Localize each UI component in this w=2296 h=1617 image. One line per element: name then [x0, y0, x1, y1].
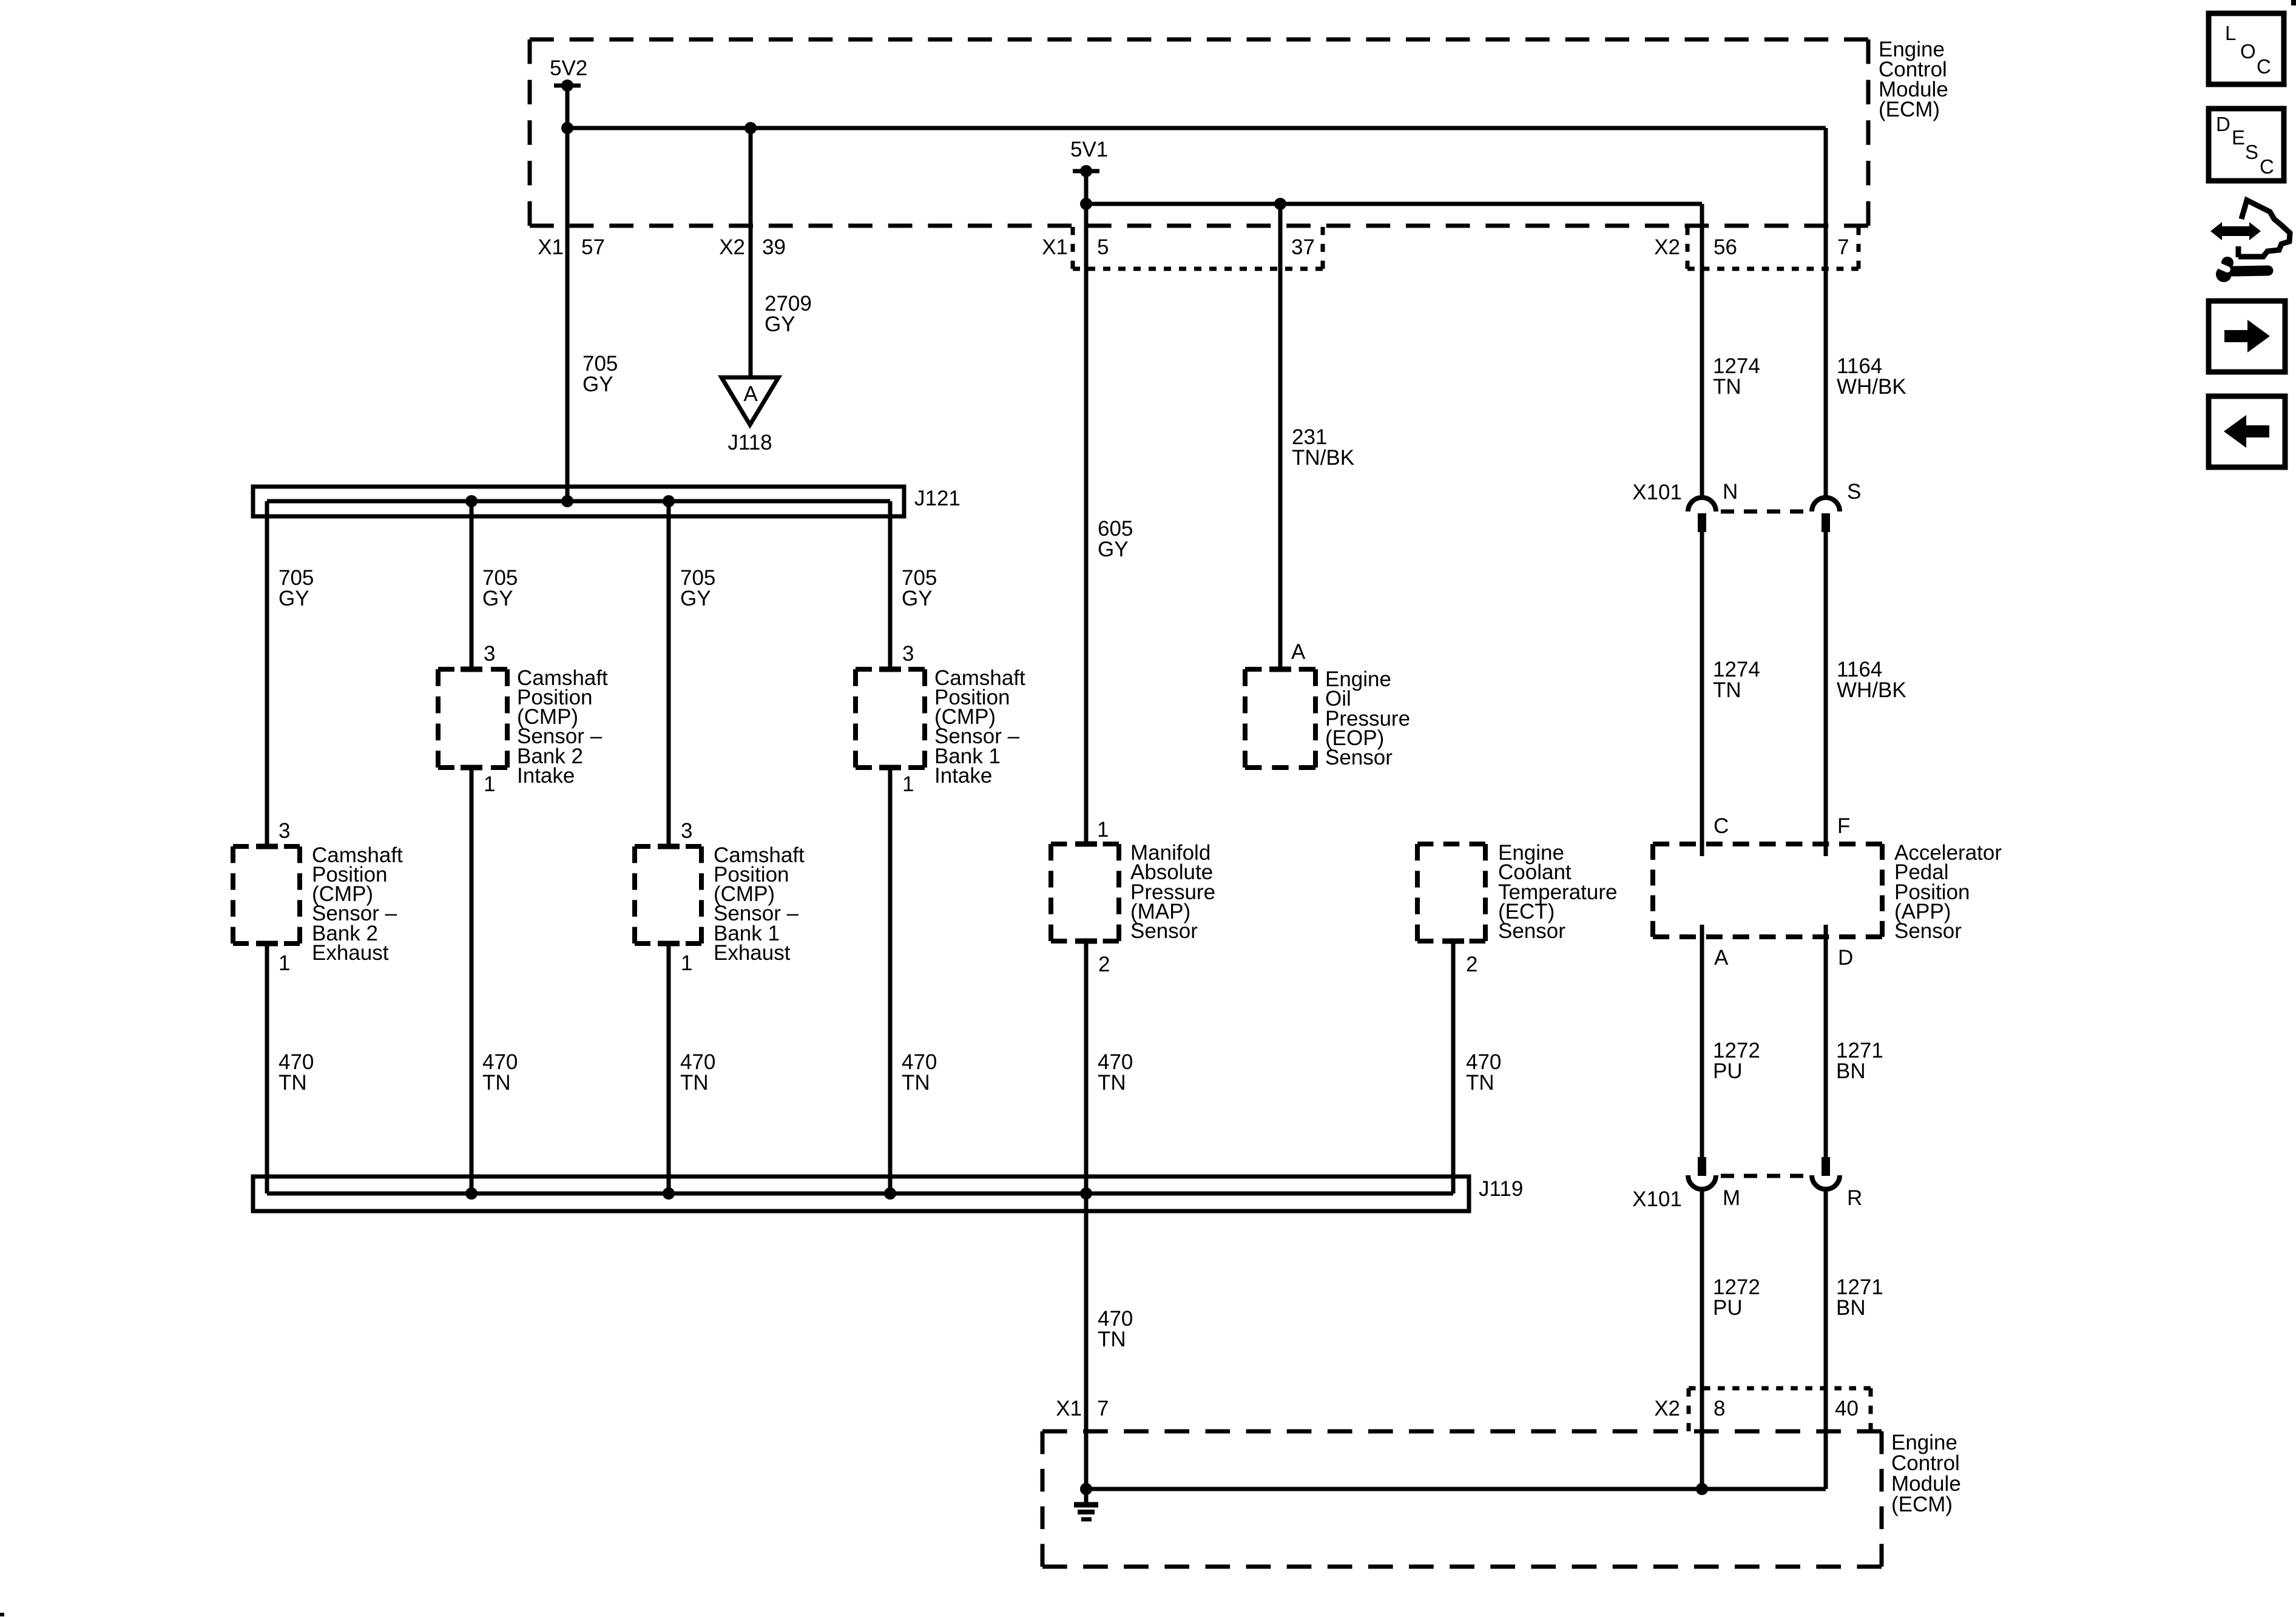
junction node on 5V1 rail at x=1790	[1080, 198, 1092, 210]
wire 1272 PU: X101 M down to ECM pin 8	[1700, 1189, 1704, 1489]
icon: back arrow box	[2209, 396, 2285, 467]
connector X2 dotted box (pins 56,7)	[1687, 267, 1859, 271]
svg-text:X1: X1	[1056, 1397, 1082, 1420]
sensor B2E: Camshaft Position CMP Sensor Bank 2 Exhaust dashed box	[233, 844, 300, 849]
svg-text:J119: J119	[1479, 1177, 1523, 1201]
svg-text:C: C	[1714, 814, 1729, 838]
wire 470 TN: ECT pin 2 to J119	[1451, 941, 1456, 1193]
svg-text:GY: GY	[279, 587, 309, 610]
junction dot J121 @935	[561, 495, 573, 507]
wire: 5V2 horizontal rail to pin 7	[567, 126, 1826, 130]
connector X101 pin R male bar	[1822, 1157, 1830, 1176]
wire: 5V2 stub down	[566, 86, 570, 128]
svg-text:GY: GY	[680, 587, 711, 610]
pin A terminal bar EOP	[1269, 667, 1291, 672]
svg-text:A: A	[743, 382, 758, 406]
wire 231 TN/BK: pin 37 down to EOP sensor	[1278, 204, 1283, 669]
svg-text:BN: BN	[1836, 1296, 1866, 1320]
sensor B1I: Camshaft Position CMP Sensor Bank 1 Intake dashed box	[856, 667, 925, 672]
svg-text:O: O	[2240, 40, 2256, 62]
junction node on 5V2 rail at x=935	[561, 122, 573, 134]
junction dot J119 @1790	[1080, 1187, 1092, 1200]
svg-text:3: 3	[902, 642, 914, 666]
svg-text:2: 2	[1098, 953, 1110, 976]
connector X101 pin M female arc	[1688, 1175, 1716, 1189]
connector X2 dotted box (pins 8,40) bottom	[1689, 1386, 1871, 1391]
svg-text:S: S	[2245, 141, 2258, 163]
svg-text:TN: TN	[1713, 375, 1741, 399]
wire: ground rail inside bottom ECM	[1086, 1487, 1826, 1491]
wire 470 TN: B2I pin 1 to J119	[470, 768, 474, 1193]
5V1 terminal bar	[1073, 169, 1099, 174]
svg-text:Sensor: Sensor	[1894, 919, 1962, 943]
sensor B1E: Camshaft Position CMP Sensor Bank 1 Exhaust dashed box	[635, 844, 701, 849]
junction dot ground rail @2805 (pin 8 wire)	[1696, 1483, 1708, 1495]
wire 470 TN: MAP pin 2 through J119 down to ECM pin X1-7	[1084, 941, 1089, 1489]
svg-text:X2: X2	[719, 235, 745, 259]
svg-text:57: 57	[581, 235, 605, 259]
svg-text:L: L	[2225, 22, 2236, 44]
svg-text:GY: GY	[765, 312, 795, 336]
svg-text:Sensor: Sensor	[1498, 919, 1565, 943]
svg-text:2: 2	[1466, 953, 1477, 976]
svg-text:39: 39	[762, 235, 786, 259]
svg-text:Intake: Intake	[517, 764, 575, 788]
pin 2 terminal bar ECT	[1442, 939, 1464, 944]
splice pack J121 outer box	[253, 487, 904, 516]
svg-text:X2: X2	[1654, 1397, 1680, 1420]
connector X101 pin R female arc	[1812, 1175, 1840, 1189]
svg-text:5: 5	[1097, 235, 1109, 259]
svg-text:8: 8	[1714, 1397, 1725, 1420]
svg-text:TN: TN	[1713, 678, 1741, 702]
ground symbol inside bottom ECM	[1084, 1489, 1089, 1504]
splice pack J119 outer box	[253, 1176, 1469, 1211]
sensor B2I: Camshaft Position CMP Sensor Bank 2 Intake dashed box	[438, 667, 507, 672]
svg-text:TN: TN	[1466, 1071, 1494, 1095]
sensor EOP: Engine Oil Pressure dashed box	[1245, 667, 1315, 672]
svg-text:Intake: Intake	[934, 764, 992, 788]
connector X101 pin S male bar	[1822, 513, 1830, 532]
connector X101 pin M male bar	[1698, 1157, 1706, 1176]
pin 2 terminal bar MAP	[1075, 939, 1097, 944]
svg-text:J121: J121	[914, 487, 961, 510]
junction node on 5V1 rail at x=2110 (wire 231)	[1274, 198, 1286, 210]
icon: forward arrow box	[2209, 301, 2285, 372]
junction dot J121 @777	[465, 495, 478, 507]
page corner tick marks	[2291, 0, 2296, 5]
junction dot at 5V2 terminal	[561, 79, 573, 92]
svg-text:1: 1	[279, 951, 290, 975]
svg-text:X1: X1	[538, 235, 564, 259]
svg-text:3: 3	[279, 819, 290, 843]
junction dot J119 @1467	[884, 1187, 896, 1200]
wire 470 TN: B1I pin 1 to J119	[888, 768, 893, 1193]
svg-text:TN: TN	[680, 1071, 709, 1095]
wire 1274 TN: pin X2-56 down to X101 pin N	[1700, 204, 1704, 498]
svg-text:WH/BK: WH/BK	[1837, 678, 1906, 702]
svg-text:BN: BN	[1836, 1059, 1866, 1083]
wire 705 GY: J121 to CMP Bank1 Exhaust pin 3	[667, 501, 671, 846]
svg-text:1: 1	[902, 772, 914, 796]
svg-text:GY: GY	[482, 587, 513, 610]
wire 1274 TN: X101 N down to APP pin C	[1700, 532, 1704, 856]
junction dot J119 @1102	[663, 1187, 675, 1200]
wire 705 GY: pin X1-57 down to splice J121	[566, 128, 570, 501]
connector X101 lower dashed link	[1721, 1174, 1809, 1178]
svg-text:WH/BK: WH/BK	[1837, 375, 1906, 399]
svg-text:C: C	[2257, 55, 2271, 78]
connector X101 upper dashed link	[1721, 510, 1809, 514]
wire 470 TN: B1E pin 1 to J119	[667, 944, 671, 1193]
svg-text:F: F	[1837, 814, 1850, 838]
svg-text:7: 7	[1097, 1397, 1109, 1420]
svg-text:TN: TN	[1098, 1328, 1126, 1351]
5V2 terminal bar	[554, 84, 581, 88]
module U1: Engine Control Module (ECM) top, dashed box	[530, 38, 1868, 42]
junction dot at 5V1 terminal	[1080, 165, 1092, 177]
connector X101 pin N female arc	[1688, 498, 1716, 511]
svg-text:TN: TN	[1098, 1071, 1126, 1095]
pin 1 terminal bar B2E	[256, 941, 278, 947]
icon: hand with double arrow and wrench	[2238, 200, 2290, 257]
svg-text:X101: X101	[1632, 1187, 1682, 1211]
connector X101 pin N male bar	[1698, 513, 1706, 532]
svg-text:TN: TN	[279, 1071, 307, 1095]
junction dot ground rail @1790	[1080, 1483, 1092, 1495]
svg-text:J118: J118	[728, 431, 772, 454]
wire 705 GY: J121 to CMP Bank2 Intake pin 3	[470, 501, 474, 669]
svg-text:R: R	[1847, 1186, 1862, 1210]
module U1: Engine Control Module (ECM) bottom, dashed box	[1042, 1430, 1882, 1434]
ground J118 triangle symbol	[721, 377, 778, 425]
svg-text:TN: TN	[902, 1071, 930, 1095]
svg-text:S: S	[1847, 480, 1861, 504]
svg-text:3: 3	[681, 819, 692, 843]
svg-text:5V2: 5V2	[550, 56, 587, 80]
svg-text:D: D	[1838, 946, 1853, 970]
svg-text:A: A	[1714, 946, 1729, 970]
svg-text:Sensor: Sensor	[1325, 746, 1393, 769]
svg-text:M: M	[1723, 1186, 1740, 1210]
wire 1164 WH/BK: X101 S down to APP pin F	[1824, 532, 1828, 856]
wire 705 GY: J121 to CMP Bank1 Intake pin 3	[888, 501, 893, 669]
svg-text:GY: GY	[1098, 538, 1129, 561]
junction node on 5V2 rail at x=1237 (wire 2709)	[745, 122, 757, 134]
svg-text:1: 1	[681, 951, 692, 975]
connector X101 pin S female arc	[1812, 498, 1840, 511]
svg-text:40: 40	[1835, 1397, 1859, 1420]
sensor MAP: Manifold Absolute Pressure dashed box	[1051, 842, 1119, 846]
svg-text:56: 56	[1714, 235, 1737, 259]
pin 1 terminal bar B2I	[461, 765, 482, 771]
svg-text:3: 3	[484, 642, 495, 666]
wire 705 GY: J121 to CMP Bank2 Exhaust pin 3	[265, 501, 269, 846]
wire 1164 WH/BK: pin 7 down to X101 pin S	[1824, 128, 1828, 498]
splice pack J121 bus bar	[267, 499, 890, 504]
pin 1 terminal bar B1E	[658, 941, 680, 947]
pin 1 terminal bar B1I	[879, 765, 901, 771]
junction dot J119 @777	[465, 1187, 478, 1200]
wire 1272 PU: APP pin A down to X101 pin M	[1700, 925, 1704, 1157]
splice pack J119 bus bar	[267, 1192, 1453, 1196]
sensor ECT: Engine Coolant Temperature dashed box	[1417, 842, 1485, 846]
svg-text:Exhaust: Exhaust	[312, 941, 389, 965]
pin 3 terminal bar B1I	[879, 667, 901, 672]
icon: LOC box	[2209, 13, 2284, 84]
svg-text:TN: TN	[482, 1071, 511, 1095]
svg-text:(ECM): (ECM)	[1879, 98, 1940, 121]
wire 470 TN: B2E pin 1 to J119	[265, 944, 269, 1193]
pin 3 terminal bar B2E	[256, 844, 278, 849]
icon: DESC box	[2209, 109, 2284, 181]
svg-text:7: 7	[1837, 235, 1849, 259]
connector X1 dotted box (pins 5,37)	[1073, 267, 1323, 271]
svg-text:37: 37	[1291, 235, 1315, 259]
svg-text:A: A	[1291, 640, 1306, 664]
svg-text:C: C	[2260, 155, 2274, 178]
svg-text:E: E	[2232, 126, 2245, 149]
svg-text:1: 1	[1097, 818, 1109, 842]
svg-text:Exhaust: Exhaust	[714, 941, 791, 965]
svg-text:(ECM): (ECM)	[1891, 1493, 1953, 1516]
svg-text:X1: X1	[1042, 235, 1068, 259]
wire: 5V1 down through pin 5 to MAP sensor (605 GY)	[1084, 171, 1089, 844]
svg-text:Sensor: Sensor	[1130, 919, 1198, 943]
svg-text:TN/BK: TN/BK	[1292, 446, 1354, 470]
svg-text:5V1: 5V1	[1070, 138, 1108, 161]
svg-text:N: N	[1723, 480, 1738, 504]
svg-text:1: 1	[484, 772, 495, 796]
pin 3 terminal bar B1E	[658, 844, 680, 849]
svg-text:GY: GY	[582, 373, 613, 396]
pin 1 terminal bar MAP	[1075, 842, 1097, 847]
svg-text:PU: PU	[1713, 1059, 1743, 1083]
wire: 5V1 horizontal rail to pin 56	[1086, 202, 1702, 206]
svg-text:X101: X101	[1632, 481, 1682, 504]
wire 2709 GY: pin X2-39 down to ground J118	[749, 128, 753, 379]
svg-text:PU: PU	[1713, 1296, 1743, 1320]
junction dot J121 @1102	[663, 495, 675, 507]
sensor APP: Accelerator Pedal Position dashed box	[1653, 842, 1882, 846]
wire 1271 BN: X101 R down to ECM pin 40	[1824, 1189, 1828, 1489]
svg-text:GY: GY	[902, 587, 933, 610]
pin 3 terminal bar B2I	[461, 667, 482, 672]
svg-text:X2: X2	[1654, 235, 1680, 259]
wire 1271 BN: APP pin D down to X101 pin R	[1824, 925, 1828, 1157]
svg-text:D: D	[2216, 113, 2230, 135]
